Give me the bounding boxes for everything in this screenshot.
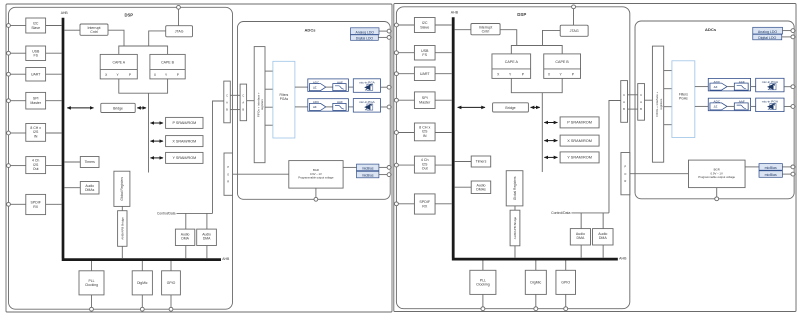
diagram instance right xyxy=(394,4,796,312)
diagram instance left xyxy=(6,4,392,312)
